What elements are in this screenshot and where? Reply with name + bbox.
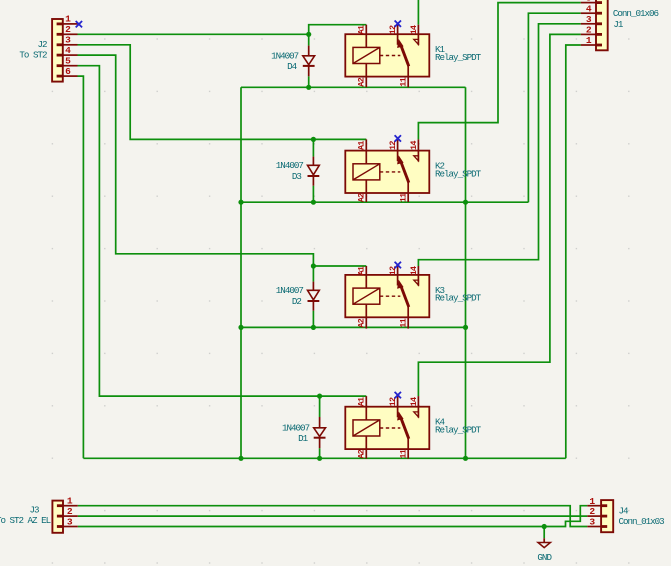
svg-text:2: 2 xyxy=(67,506,73,517)
junction left bus K3 row xyxy=(238,325,243,330)
svg-text:3: 3 xyxy=(586,14,592,25)
junction D2 top xyxy=(311,263,316,268)
svg-text:12: 12 xyxy=(388,397,398,406)
wire right bus vertical xyxy=(465,87,467,458)
svg-text:3: 3 xyxy=(589,517,595,528)
relay K2 Relay_SPDT xyxy=(345,139,429,202)
svg-text:1: 1 xyxy=(586,35,592,46)
pin labels K4 A1 12 14 A2 11 xyxy=(357,397,420,459)
svg-text:J3: J3 xyxy=(30,505,40,516)
svg-text:A2: A2 xyxy=(357,449,367,458)
wire J2 pin5 down to K4 row xyxy=(78,66,320,396)
svg-text:Relay_SPDT: Relay_SPDT xyxy=(435,425,482,436)
svg-text:To ST2: To ST2 xyxy=(19,50,47,61)
svg-text:J2: J2 xyxy=(37,39,47,50)
svg-text:1N4007: 1N4007 xyxy=(276,285,304,296)
junction D2 bottom xyxy=(311,325,316,330)
svg-text:1: 1 xyxy=(67,496,73,507)
wire J1 pin1 to bottom bus xyxy=(566,45,581,458)
svg-text:1N4007: 1N4007 xyxy=(271,51,299,62)
relay K4 Relay_SPDT xyxy=(345,396,429,459)
junction right bus bottom xyxy=(463,456,468,461)
wire J1 pin5 to K2 pin14 xyxy=(418,3,580,140)
connector J3 xyxy=(52,501,77,533)
pin labels K1 A1 12 14 A2 11 xyxy=(357,25,420,87)
wire left bus vertical xyxy=(240,87,242,458)
svg-text:14: 14 xyxy=(409,397,419,406)
wire J2 pin3 down to K2 row xyxy=(78,45,314,140)
pin numbers J3 1-3 xyxy=(67,496,73,528)
svg-text:1N4007: 1N4007 xyxy=(276,160,304,171)
wire J1 pin3 to K3 pin14 xyxy=(418,24,580,266)
connector J1 xyxy=(581,0,608,50)
svg-text:Conn_01x03: Conn_01x03 xyxy=(619,516,665,527)
diode D1 1N4007 xyxy=(314,396,326,458)
diode D4 1N4007 xyxy=(303,34,315,87)
svg-text:11: 11 xyxy=(399,77,409,86)
svg-text:12: 12 xyxy=(388,141,398,150)
pin labels K2 A1 12 14 A2 11 xyxy=(357,141,420,203)
wire J1 pin4 to K2 bottom row xyxy=(528,13,580,202)
svg-text:14: 14 xyxy=(409,266,419,275)
wire D3 junction to K2 A1 xyxy=(313,138,366,140)
wire K1 pin14 to top edge (J1 pin6) xyxy=(417,0,419,25)
wire K3 bottom row xyxy=(241,326,466,328)
svg-text:GND: GND xyxy=(537,552,552,563)
no-connect X K4 pin12 xyxy=(395,392,401,398)
relay K1 Relay_SPDT xyxy=(345,25,429,88)
wire J2 pin4 down to K3 row xyxy=(78,55,314,266)
no-connect X K3 pin12 xyxy=(395,262,401,268)
diode D2 1N4007 xyxy=(308,266,320,327)
connector J4 xyxy=(587,500,613,532)
junction right bus K2 row xyxy=(463,200,468,205)
svg-text:2: 2 xyxy=(65,24,71,35)
ground GND symbol xyxy=(538,527,550,548)
svg-text:D4: D4 xyxy=(287,61,298,72)
svg-text:6: 6 xyxy=(65,66,71,77)
no-connect X K1 pin12 xyxy=(395,21,401,27)
wire J1 pin2 to K4 pin14 xyxy=(418,34,580,396)
svg-text:A1: A1 xyxy=(357,141,367,150)
svg-text:Conn_01x06: Conn_01x06 xyxy=(613,8,659,19)
svg-text:2: 2 xyxy=(586,25,592,36)
pin numbers J2 1-6 xyxy=(65,14,71,77)
svg-text:D1: D1 xyxy=(298,433,309,444)
svg-text:J1: J1 xyxy=(613,19,624,30)
svg-text:A2: A2 xyxy=(357,318,367,327)
svg-text:D3: D3 xyxy=(292,171,302,182)
svg-text:14: 14 xyxy=(409,25,419,34)
pin numbers J4 1-3 xyxy=(589,496,595,528)
svg-text:Relay_SPDT: Relay_SPDT xyxy=(435,168,482,179)
wire J3 pin2 to J4 pin2 xyxy=(78,515,588,517)
svg-text:Relay_SPDT: Relay_SPDT xyxy=(435,52,482,63)
wire K1 bottom row xyxy=(241,86,466,88)
svg-text:D2: D2 xyxy=(292,296,302,307)
svg-text:1: 1 xyxy=(589,496,595,507)
wire K2 bottom row xyxy=(241,201,528,203)
wire J2 pin6 down to bottom bus xyxy=(78,76,84,458)
svg-text:14: 14 xyxy=(409,141,419,150)
pin labels K3 A1 12 14 A2 11 xyxy=(357,266,420,328)
wire J3 pin3 / GND to J4 pin1 xyxy=(78,506,588,527)
no-connect X J2 pin1 xyxy=(76,21,82,27)
svg-text:11: 11 xyxy=(399,449,409,458)
pin numbers J1 5-1 xyxy=(586,0,592,46)
relay K3 Relay_SPDT xyxy=(345,266,429,329)
svg-text:A1: A1 xyxy=(357,25,367,34)
svg-text:A2: A2 xyxy=(357,77,367,86)
junction GND tap xyxy=(542,524,547,529)
svg-text:4: 4 xyxy=(65,45,71,56)
junction D1 bottom xyxy=(317,456,322,461)
junction D3 top xyxy=(311,137,316,142)
svg-text:5: 5 xyxy=(65,56,71,67)
junction right bus K3 row xyxy=(463,325,468,330)
no-connect X K2 pin12 xyxy=(395,135,401,141)
svg-text:4: 4 xyxy=(586,3,592,14)
svg-text:12: 12 xyxy=(388,25,398,34)
wire D1 junction to K4 A1 xyxy=(320,395,367,397)
svg-text:11: 11 xyxy=(399,193,409,202)
junction D3 bottom xyxy=(311,200,316,205)
wire D2 junction to K3 A1 xyxy=(313,265,366,267)
diode D3 1N4007 xyxy=(308,139,320,202)
connector J2 xyxy=(52,19,77,82)
junction left bus K2 row xyxy=(238,200,243,205)
svg-text:3: 3 xyxy=(67,516,73,527)
svg-text:Relay_SPDT: Relay_SPDT xyxy=(435,293,482,304)
junction D4 bottom xyxy=(306,85,311,90)
wire D4 junction up to K1 A1 xyxy=(309,25,367,35)
svg-text:A1: A1 xyxy=(357,266,367,275)
svg-text:11: 11 xyxy=(399,318,409,327)
wire J3 pin1 to J4 pin3 xyxy=(78,506,588,527)
junction D4 top xyxy=(306,32,311,37)
svg-text:A2: A2 xyxy=(357,193,367,202)
wire J2 pin2 to D4 junction xyxy=(78,33,309,35)
svg-text:2: 2 xyxy=(589,506,595,517)
svg-text:J4: J4 xyxy=(619,505,630,516)
svg-text:1: 1 xyxy=(65,14,71,25)
svg-text:To ST2 AZ EL: To ST2 AZ EL xyxy=(0,515,51,526)
junction left bus bottom xyxy=(238,456,243,461)
junction D1 top xyxy=(317,394,322,399)
wire bottom bus row xyxy=(83,457,565,459)
svg-text:A1: A1 xyxy=(357,397,367,406)
